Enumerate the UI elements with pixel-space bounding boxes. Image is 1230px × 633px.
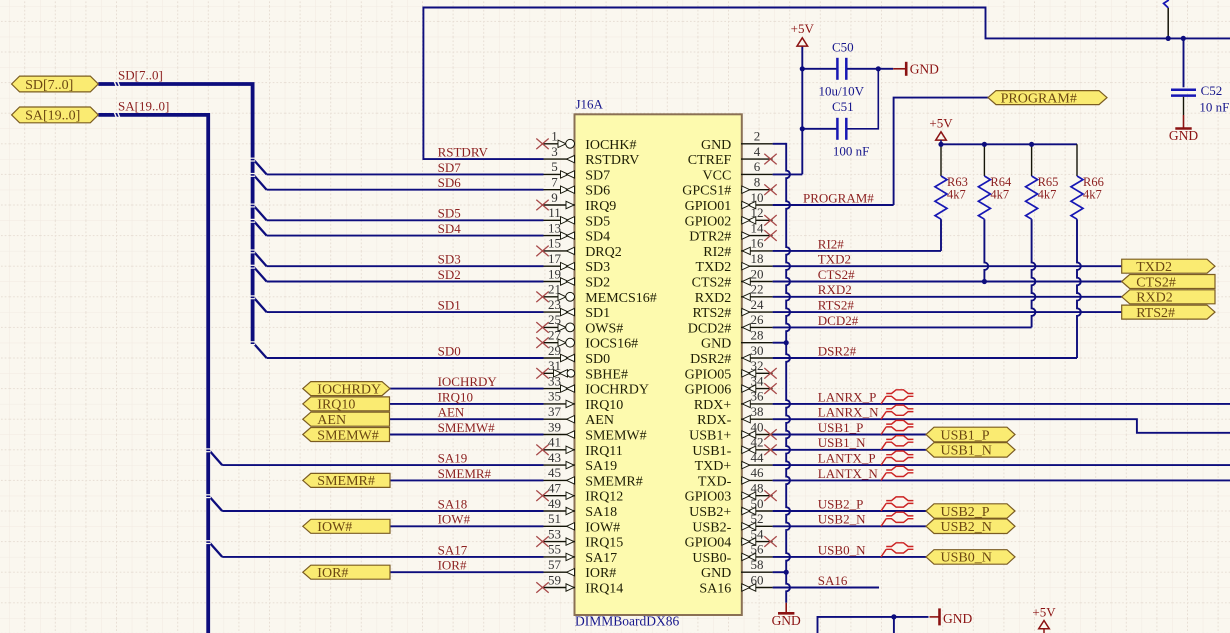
svg-text:IRQ10: IRQ10: [317, 398, 355, 413]
svg-text:31: 31: [548, 358, 561, 373]
svg-text:3: 3: [551, 144, 558, 159]
svg-text:IRQ15: IRQ15: [585, 536, 623, 551]
svg-text:6: 6: [754, 159, 761, 174]
svg-text:SD2: SD2: [585, 276, 610, 291]
svg-text:USB1-: USB1-: [692, 444, 731, 459]
svg-text:SD3: SD3: [585, 260, 610, 275]
svg-text:+5V: +5V: [1032, 605, 1056, 620]
svg-text:7: 7: [551, 175, 558, 190]
svg-text:IOW#: IOW#: [438, 512, 471, 527]
svg-text:IOCS16#: IOCS16#: [585, 337, 638, 352]
svg-text:5: 5: [551, 159, 558, 174]
svg-text:USB0_N: USB0_N: [941, 551, 992, 566]
svg-text:VCC: VCC: [703, 168, 732, 183]
svg-text:SA[19..0]: SA[19..0]: [118, 98, 169, 113]
svg-text:59: 59: [548, 572, 561, 587]
svg-text:28: 28: [751, 328, 764, 343]
svg-text:GPIO02: GPIO02: [685, 214, 732, 229]
svg-text:IOCHRDY: IOCHRDY: [317, 382, 381, 397]
svg-text:22: 22: [751, 282, 764, 297]
svg-text:GND: GND: [701, 566, 731, 581]
svg-text:USB1_P: USB1_P: [818, 420, 864, 435]
svg-text:SMEMR#: SMEMR#: [317, 474, 375, 489]
svg-text:USB1_P: USB1_P: [941, 428, 990, 443]
svg-text:RXD2: RXD2: [1136, 291, 1173, 306]
svg-text:51: 51: [548, 511, 561, 526]
svg-text:RI2#: RI2#: [703, 245, 731, 260]
svg-text:SBHE#: SBHE#: [585, 367, 628, 382]
svg-text:AEN: AEN: [585, 413, 614, 428]
svg-text:IOCHK#: IOCHK#: [585, 138, 636, 153]
svg-text:RI2#: RI2#: [818, 236, 845, 251]
svg-text:C52: C52: [1201, 83, 1223, 98]
svg-text:SD6: SD6: [585, 184, 610, 199]
svg-text:GND: GND: [910, 61, 939, 76]
svg-text:USB2_N: USB2_N: [818, 512, 866, 527]
svg-text:49: 49: [548, 496, 561, 511]
svg-text:SMEMW#: SMEMW#: [585, 429, 646, 444]
svg-text:10 nF: 10 nF: [1199, 99, 1229, 114]
svg-text:+5V: +5V: [929, 116, 953, 131]
svg-text:GPCS1#: GPCS1#: [682, 184, 731, 199]
svg-text:USB0_N: USB0_N: [818, 542, 866, 557]
svg-text:26: 26: [751, 312, 765, 327]
svg-text:SA16: SA16: [818, 573, 848, 588]
svg-text:GPIO04: GPIO04: [685, 536, 732, 551]
svg-text:41: 41: [548, 435, 561, 450]
svg-text:SD[7..0]: SD[7..0]: [25, 78, 73, 93]
svg-text:29: 29: [548, 343, 561, 358]
svg-text:57: 57: [548, 557, 562, 572]
svg-text:45: 45: [548, 465, 561, 480]
svg-text:DCD2#: DCD2#: [818, 313, 859, 328]
svg-text:13: 13: [548, 220, 561, 235]
svg-text:LANTX_N: LANTX_N: [818, 466, 879, 481]
svg-text:4k7: 4k7: [990, 188, 1009, 202]
svg-text:PROGRAM#: PROGRAM#: [1001, 91, 1077, 106]
svg-text:SD[7..0]: SD[7..0]: [118, 68, 163, 83]
svg-text:SA18: SA18: [438, 496, 468, 511]
svg-text:SD2: SD2: [438, 267, 461, 282]
svg-text:IOR#: IOR#: [438, 558, 467, 573]
svg-text:USB2+: USB2+: [689, 505, 731, 520]
svg-text:SD7: SD7: [438, 160, 462, 175]
svg-text:MEMCS16#: MEMCS16#: [585, 291, 657, 306]
svg-text:GPIO01: GPIO01: [685, 199, 732, 214]
svg-text:RDX-: RDX-: [697, 413, 732, 428]
svg-text:IOW#: IOW#: [585, 520, 620, 535]
svg-text:18: 18: [751, 251, 764, 266]
svg-text:GPIO06: GPIO06: [685, 383, 732, 398]
svg-text:54: 54: [751, 526, 765, 541]
svg-text:TXD2: TXD2: [696, 260, 732, 275]
svg-text:DCD2#: DCD2#: [688, 321, 732, 336]
svg-text:LANRX_P: LANRX_P: [818, 389, 877, 404]
svg-text:DRQ2: DRQ2: [585, 245, 622, 260]
svg-text:+5V: +5V: [791, 21, 815, 36]
svg-text:IRQ9: IRQ9: [585, 199, 616, 214]
svg-text:RTS2#: RTS2#: [1136, 306, 1175, 321]
svg-text:52: 52: [751, 511, 764, 526]
svg-text:12: 12: [751, 205, 764, 220]
svg-text:GPIO05: GPIO05: [685, 367, 732, 382]
svg-text:27: 27: [548, 328, 562, 343]
svg-text:20: 20: [751, 266, 764, 281]
svg-text:GND: GND: [1169, 128, 1198, 143]
svg-text:SMEMR#: SMEMR#: [438, 466, 492, 481]
svg-text:GND: GND: [772, 613, 801, 628]
svg-text:SD6: SD6: [438, 175, 462, 190]
svg-text:GND: GND: [701, 337, 731, 352]
svg-text:14: 14: [751, 220, 765, 235]
svg-text:CTREF: CTREF: [688, 153, 732, 168]
svg-text:39: 39: [548, 419, 561, 434]
svg-text:21: 21: [548, 282, 561, 297]
svg-text:SD5: SD5: [585, 214, 610, 229]
svg-text:LANRX_N: LANRX_N: [818, 405, 879, 420]
svg-text:30: 30: [751, 343, 764, 358]
svg-text:SA[19..0]: SA[19..0]: [25, 109, 80, 124]
svg-text:44: 44: [751, 450, 765, 465]
svg-text:SD7: SD7: [585, 168, 610, 183]
svg-text:USB1_N: USB1_N: [941, 444, 992, 459]
svg-text:IRQ14: IRQ14: [585, 582, 623, 597]
svg-text:46: 46: [751, 465, 765, 480]
svg-text:17: 17: [548, 251, 562, 266]
svg-text:SA17: SA17: [438, 542, 468, 557]
svg-text:IRQ12: IRQ12: [585, 490, 623, 505]
svg-text:SA17: SA17: [585, 551, 617, 566]
svg-text:IOW#: IOW#: [317, 520, 352, 535]
svg-text:100 nF: 100 nF: [833, 143, 869, 158]
svg-text:38: 38: [751, 404, 764, 419]
svg-text:RXD2: RXD2: [818, 282, 852, 297]
svg-text:RXD2: RXD2: [695, 291, 732, 306]
svg-text:IOR#: IOR#: [585, 566, 616, 581]
svg-text:25: 25: [548, 312, 561, 327]
svg-text:SMEMW#: SMEMW#: [438, 420, 496, 435]
svg-text:AEN: AEN: [317, 413, 346, 428]
svg-text:IOCHRDY: IOCHRDY: [438, 374, 498, 389]
svg-text:43: 43: [548, 450, 561, 465]
svg-text:40: 40: [751, 419, 764, 434]
svg-text:SA19: SA19: [585, 459, 617, 474]
svg-text:SD0: SD0: [438, 343, 461, 358]
svg-text:2: 2: [754, 129, 761, 144]
svg-text:10: 10: [751, 190, 764, 205]
svg-text:DTR2#: DTR2#: [689, 230, 731, 245]
svg-text:AEN: AEN: [438, 405, 465, 420]
svg-text:GND: GND: [701, 138, 731, 153]
svg-text:DSR2#: DSR2#: [690, 352, 731, 367]
svg-text:RTS2#: RTS2#: [818, 298, 855, 313]
svg-text:50: 50: [751, 496, 764, 511]
svg-text:4k7: 4k7: [1083, 188, 1102, 202]
svg-text:35: 35: [548, 389, 561, 404]
svg-text:11: 11: [548, 205, 561, 220]
svg-text:SD1: SD1: [438, 298, 461, 313]
svg-text:33: 33: [548, 373, 561, 388]
svg-text:34: 34: [751, 373, 765, 388]
svg-text:IOR#: IOR#: [317, 566, 348, 581]
svg-text:37: 37: [548, 404, 562, 419]
svg-text:55: 55: [548, 542, 561, 557]
svg-text:USB2_P: USB2_P: [941, 505, 990, 520]
svg-text:SA18: SA18: [585, 505, 617, 520]
svg-text:RTS2#: RTS2#: [692, 306, 731, 321]
svg-text:36: 36: [751, 389, 765, 404]
svg-text:4: 4: [754, 144, 761, 159]
svg-text:SD4: SD4: [438, 221, 462, 236]
svg-text:58: 58: [751, 557, 764, 572]
svg-text:GPIO03: GPIO03: [685, 490, 732, 505]
svg-text:LANTX_P: LANTX_P: [818, 451, 876, 466]
svg-text:DSR2#: DSR2#: [818, 343, 857, 358]
svg-text:USB2_N: USB2_N: [941, 520, 992, 535]
svg-text:CTS2#: CTS2#: [818, 267, 855, 282]
svg-text:19: 19: [548, 266, 561, 281]
svg-text:8: 8: [754, 175, 761, 190]
svg-text:53: 53: [548, 526, 561, 541]
svg-text:USB2-: USB2-: [692, 520, 731, 535]
svg-text:RSTDRV: RSTDRV: [585, 153, 639, 168]
svg-text:C50: C50: [832, 40, 854, 55]
svg-text:23: 23: [548, 297, 561, 312]
svg-text:RSTDRV: RSTDRV: [438, 145, 489, 160]
svg-text:9: 9: [551, 190, 558, 205]
svg-text:IRQ10: IRQ10: [438, 389, 473, 404]
svg-text:OWS#: OWS#: [585, 321, 623, 336]
svg-text:CTS2#: CTS2#: [692, 276, 732, 291]
svg-text:USB0-: USB0-: [692, 551, 731, 566]
svg-text:60: 60: [751, 572, 764, 587]
svg-text:SD0: SD0: [585, 352, 610, 367]
svg-text:DIMMBoardDX86: DIMMBoardDX86: [575, 614, 679, 629]
svg-text:56: 56: [751, 542, 765, 557]
svg-text:TXD2: TXD2: [1136, 260, 1172, 275]
svg-text:J16A: J16A: [576, 97, 604, 112]
svg-text:RDX+: RDX+: [694, 398, 732, 413]
svg-text:4k7: 4k7: [1038, 188, 1057, 202]
svg-text:42: 42: [751, 435, 764, 450]
svg-text:TXD2: TXD2: [818, 252, 851, 267]
svg-text:SD3: SD3: [438, 252, 461, 267]
svg-text:SA19: SA19: [438, 451, 468, 466]
svg-text:SD4: SD4: [585, 230, 610, 245]
svg-text:SMEMR#: SMEMR#: [585, 474, 643, 489]
svg-text:16: 16: [751, 236, 765, 251]
svg-text:IOCHRDY: IOCHRDY: [585, 383, 649, 398]
svg-text:C51: C51: [832, 99, 854, 114]
svg-text:USB1+: USB1+: [689, 429, 731, 444]
svg-text:SA16: SA16: [699, 582, 731, 597]
svg-text:SMEMW#: SMEMW#: [317, 428, 378, 443]
svg-text:SD5: SD5: [438, 206, 461, 221]
svg-text:SD1: SD1: [585, 306, 610, 321]
svg-text:IRQ11: IRQ11: [585, 444, 623, 459]
svg-text:48: 48: [751, 481, 764, 496]
svg-text:4k7: 4k7: [947, 188, 966, 202]
svg-text:USB2_P: USB2_P: [818, 496, 864, 511]
svg-text:1: 1: [551, 129, 558, 144]
svg-text:TXD-: TXD-: [698, 474, 732, 489]
svg-text:IRQ10: IRQ10: [585, 398, 623, 413]
svg-text:CTS2#: CTS2#: [1136, 275, 1176, 290]
svg-text:GND: GND: [943, 611, 972, 626]
svg-text:TXD+: TXD+: [695, 459, 732, 474]
svg-text:24: 24: [751, 297, 765, 312]
svg-text:47: 47: [548, 481, 562, 496]
svg-text:10u/10V: 10u/10V: [819, 84, 865, 99]
svg-text:USB1_N: USB1_N: [818, 435, 866, 450]
svg-text:32: 32: [751, 358, 764, 373]
svg-text:15: 15: [548, 236, 561, 251]
svg-text:PROGRAM#: PROGRAM#: [803, 190, 874, 205]
